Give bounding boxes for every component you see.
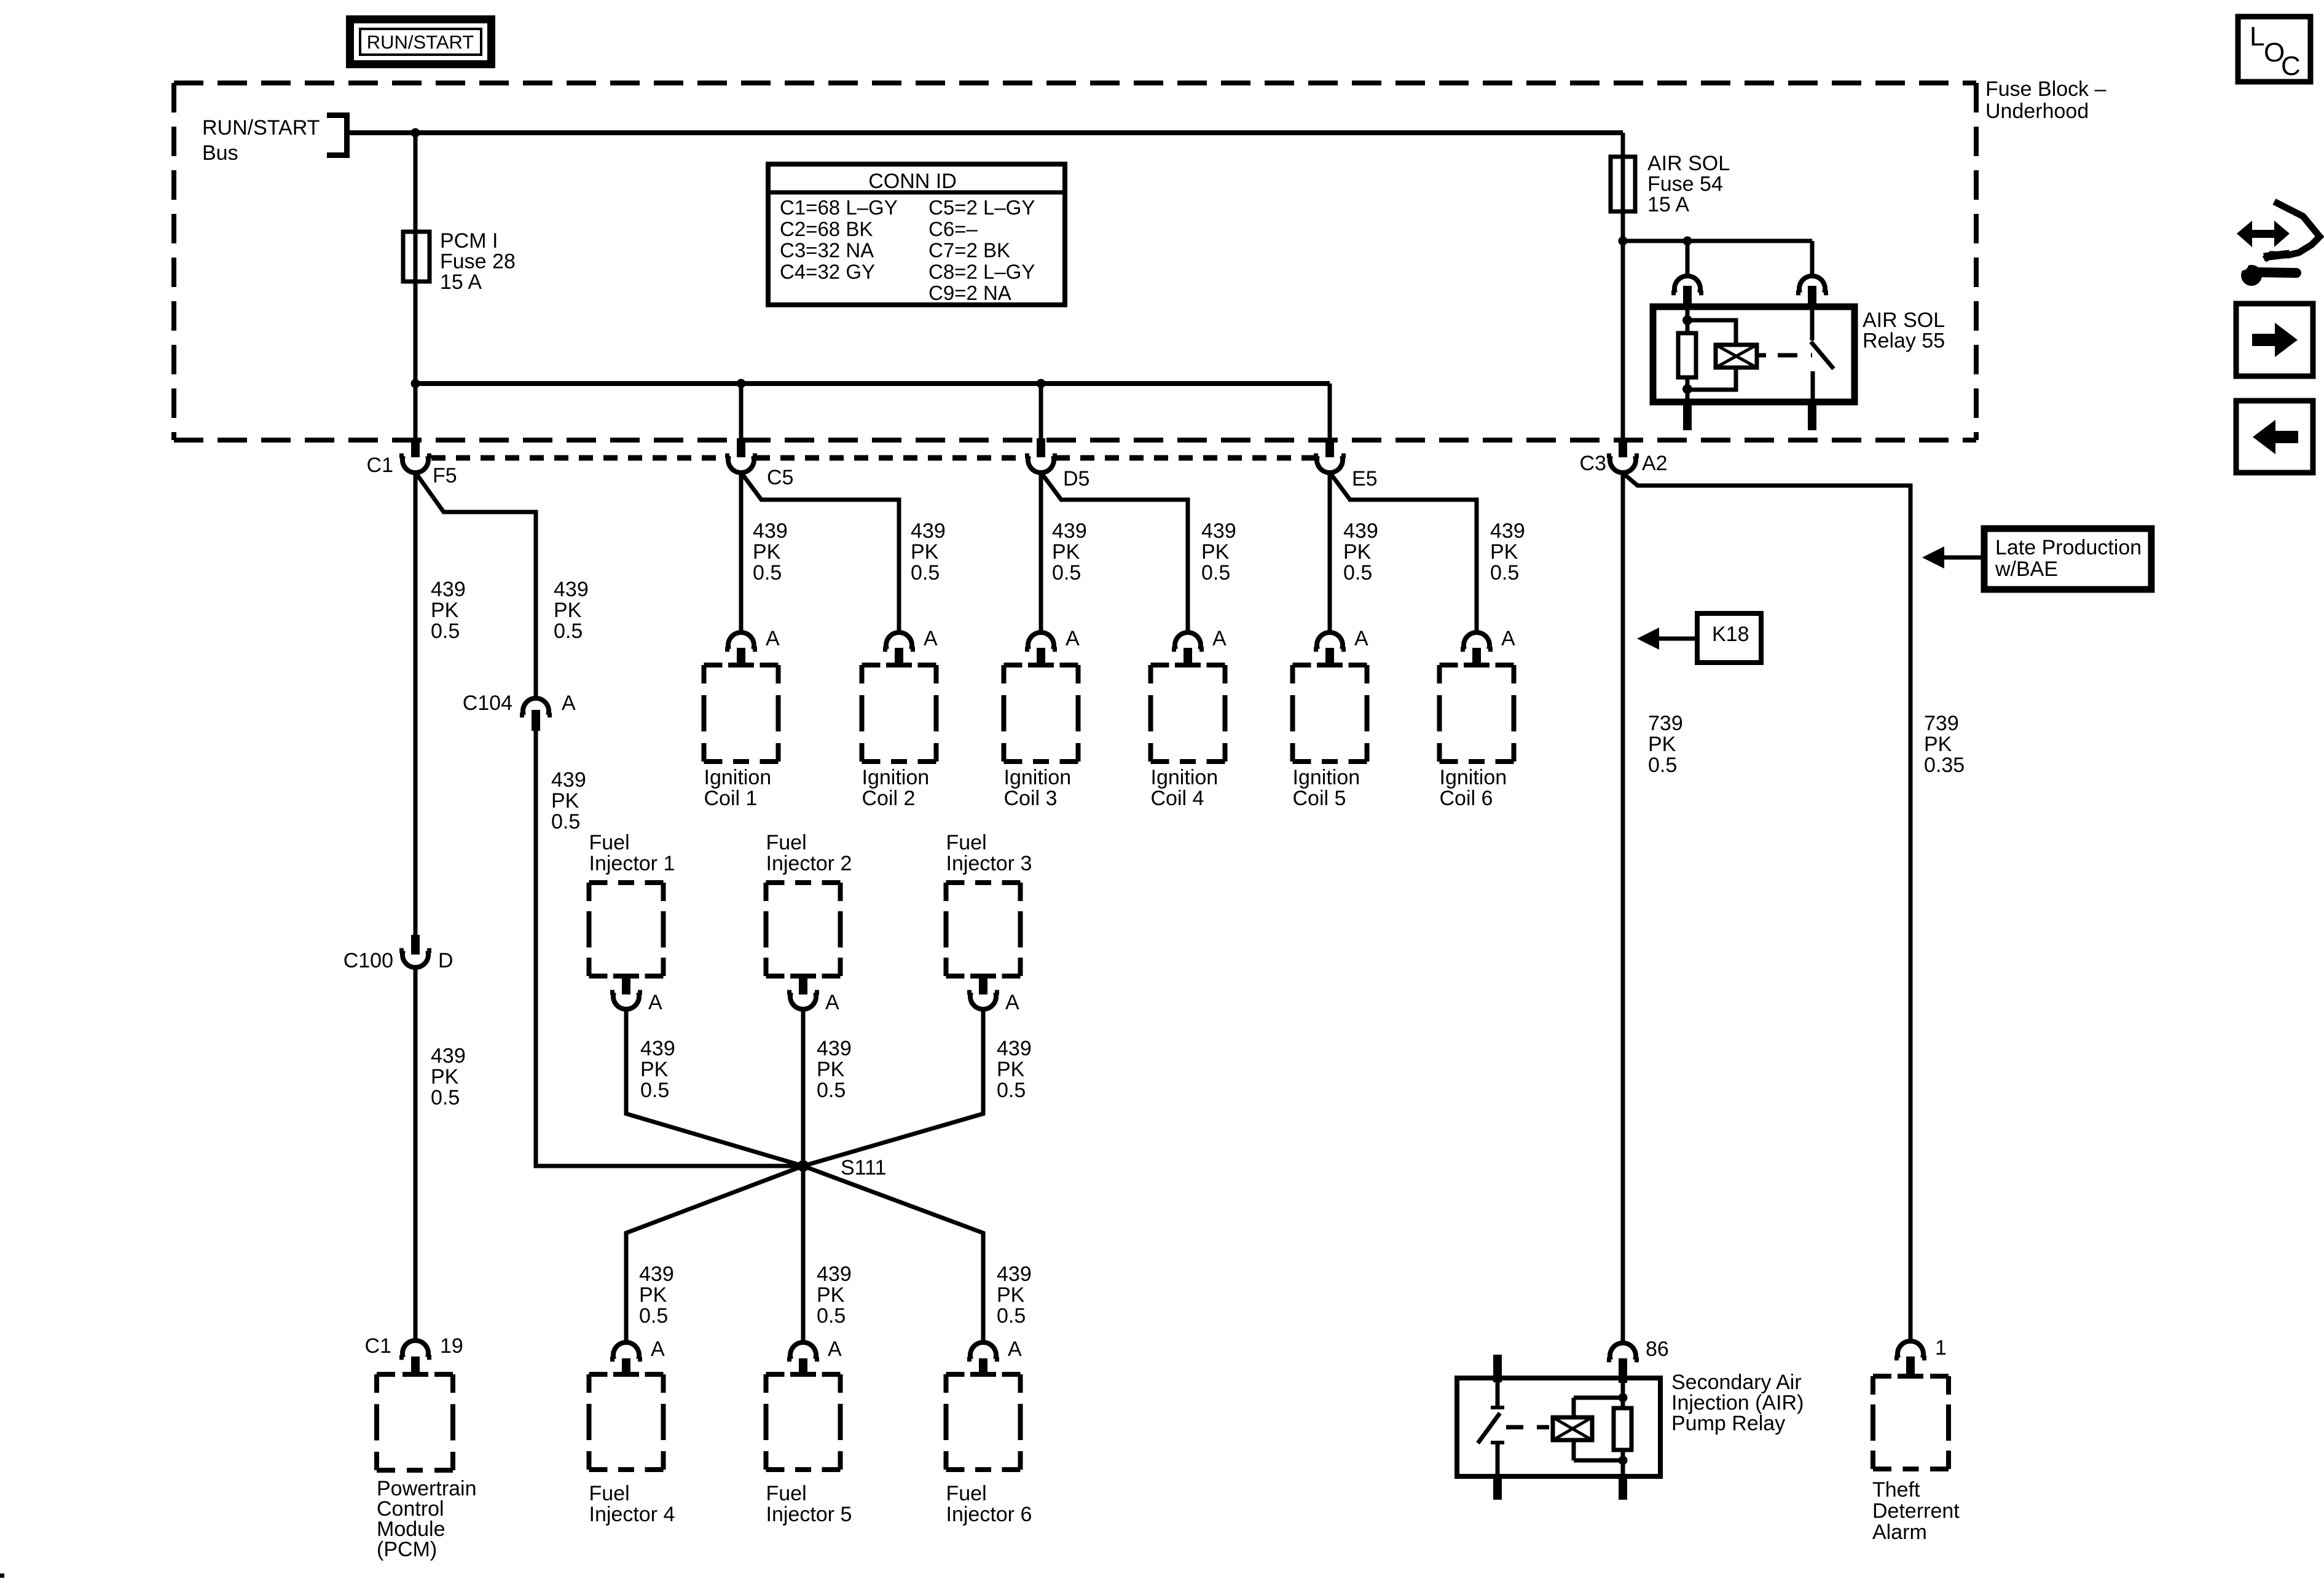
resistor relay55 coil suppression xyxy=(1678,333,1696,377)
wire drop to relay55 coil cup xyxy=(1686,241,1690,275)
svg-text:Ignition: Ignition xyxy=(1004,766,1072,789)
svg-text:0.5: 0.5 xyxy=(817,1304,846,1328)
svg-text:A: A xyxy=(648,991,662,1014)
svg-text:D5: D5 xyxy=(1063,467,1089,490)
svg-text:D: D xyxy=(438,949,453,972)
svg-text:0.5: 0.5 xyxy=(640,1079,669,1102)
svg-text:439: 439 xyxy=(817,1262,852,1286)
connector fuel injector 4 pin A xyxy=(613,1342,639,1359)
svg-text:Fuel: Fuel xyxy=(589,831,630,854)
svg-text:Injector 5: Injector 5 xyxy=(766,1503,852,1526)
svg-text:0.5: 0.5 xyxy=(911,561,940,585)
svg-text:0.5: 0.5 xyxy=(1052,561,1081,585)
svg-text:739: 739 xyxy=(1924,712,1959,735)
wire relay55 solenoid loop xyxy=(1687,320,1736,345)
svg-text:PK: PK xyxy=(640,1058,669,1081)
svg-text:439: 439 xyxy=(431,578,466,601)
CONN ID table xyxy=(768,164,1065,305)
svg-text:0.5: 0.5 xyxy=(1201,561,1230,585)
svg-text:439: 439 xyxy=(1490,519,1525,543)
connector ignition coil 6 pin A xyxy=(1464,632,1490,649)
svg-text:C8=2 L–GY: C8=2 L–GY xyxy=(928,260,1035,283)
svg-text:Fuel: Fuel xyxy=(589,1482,630,1505)
connector E5 xyxy=(1325,438,1334,457)
connector fuel injector 1 pin A xyxy=(613,974,639,979)
svg-text:Theft: Theft xyxy=(1872,1478,1920,1502)
svg-text:L: L xyxy=(2250,22,2264,52)
svg-text:15 A: 15 A xyxy=(440,270,482,294)
pump relay switch top pin xyxy=(1493,1355,1502,1382)
wire F5 branch to C104 xyxy=(416,473,536,696)
svg-text:Coil 6: Coil 6 xyxy=(1440,787,1493,810)
svg-text:C1: C1 xyxy=(367,454,393,477)
svg-text:PK: PK xyxy=(1924,733,1952,756)
svg-text:A: A xyxy=(924,627,938,650)
wire pump relay internal vertical xyxy=(1621,1383,1625,1408)
wire S111 to injector 5 xyxy=(801,1166,806,1341)
svg-text:Pump Relay: Pump Relay xyxy=(1671,1412,1785,1435)
solenoid pump relay coil xyxy=(1553,1417,1592,1440)
svg-text:439: 439 xyxy=(997,1037,1032,1060)
svg-text:C9=2 NA: C9=2 NA xyxy=(928,282,1011,304)
svg-text:439: 439 xyxy=(1201,519,1236,543)
svg-text:C2=68 BK: C2=68 BK xyxy=(780,218,873,240)
ignition coil 6 xyxy=(1440,663,1458,667)
svg-text:A: A xyxy=(1066,627,1080,650)
svg-text:A: A xyxy=(766,627,780,650)
resistor pump relay coil suppression xyxy=(1614,1408,1631,1450)
connector fuel injector 2 pin A xyxy=(790,974,816,979)
svg-text:Fuse Block –: Fuse Block – xyxy=(1985,77,2106,101)
svg-text:Ignition: Ignition xyxy=(1440,766,1507,789)
svg-text:C100: C100 xyxy=(343,949,393,972)
connector C100 pin D xyxy=(411,935,420,955)
fuel injector 4 xyxy=(589,1372,608,1377)
svg-text:Ignition: Ignition xyxy=(862,766,930,789)
svg-text:439: 439 xyxy=(639,1262,674,1286)
svg-text:Late Production: Late Production xyxy=(1995,536,2141,559)
wire relay55 feed horizontal xyxy=(1623,239,1812,243)
svg-text:439: 439 xyxy=(997,1262,1032,1286)
svg-text:A: A xyxy=(1005,991,1019,1014)
pump relay coil loop xyxy=(1572,1398,1576,1417)
svg-text:0.5: 0.5 xyxy=(817,1079,846,1102)
svg-text:A2: A2 xyxy=(1642,452,1668,475)
svg-text:C6=–: C6=– xyxy=(928,218,978,240)
svg-text:739: 739 xyxy=(1648,712,1683,735)
junction distribution at C5 drop xyxy=(737,379,746,388)
svg-text:C7=2 BK: C7=2 BK xyxy=(928,239,1010,262)
svg-text:w/BAE: w/BAE xyxy=(1995,557,2058,581)
relay55 coil bottom pin xyxy=(1683,404,1692,430)
fuel injector 3 xyxy=(946,880,1021,885)
svg-text:439: 439 xyxy=(551,768,586,792)
wire AIR SOL fuse junction to C3 xyxy=(1621,241,1625,440)
wire injector 2 to S111 xyxy=(801,1011,806,1166)
fuse block underhood dashed boundary xyxy=(174,81,1976,85)
connector ignition coil 5 pin A xyxy=(1317,632,1343,649)
junction distribution at D5 drop xyxy=(1037,379,1046,388)
svg-text:0.5: 0.5 xyxy=(997,1079,1026,1102)
svg-text:0.5: 0.5 xyxy=(639,1304,668,1328)
connector fuel injector 3 pin A xyxy=(970,974,996,979)
svg-text:A: A xyxy=(828,1337,842,1361)
svg-text:C3: C3 xyxy=(1580,452,1606,475)
svg-text:C1=68 L–GY: C1=68 L–GY xyxy=(780,196,898,219)
connector relay55 coil pin xyxy=(1674,276,1700,293)
wire D5 to ignition coil 4 xyxy=(1042,473,1188,631)
wire D5 to ignition coil 3 xyxy=(1039,473,1043,631)
RUN/START hot-at title box xyxy=(350,20,492,65)
svg-text:PK: PK xyxy=(997,1058,1025,1081)
solenoid relay55 coil xyxy=(1716,345,1757,368)
svg-text:15 A: 15 A xyxy=(1647,193,1689,216)
icon LOC box xyxy=(2238,17,2310,82)
connector C1 pin F5 xyxy=(411,438,420,457)
splice S111 xyxy=(798,1160,809,1172)
svg-text:C3=32 NA: C3=32 NA xyxy=(780,239,874,262)
svg-text:0.5: 0.5 xyxy=(551,810,580,833)
svg-text:C104: C104 xyxy=(463,691,512,715)
svg-text:439: 439 xyxy=(1343,519,1378,543)
wire injector 3 to S111 xyxy=(803,1011,983,1166)
page corner mark xyxy=(0,1573,4,1578)
junction relay55 coil bottom xyxy=(1682,384,1692,394)
svg-text:S111: S111 xyxy=(841,1156,886,1179)
svg-text:PK: PK xyxy=(1052,540,1080,564)
svg-text:Coil 4: Coil 4 xyxy=(1151,787,1204,810)
svg-text:A: A xyxy=(1501,627,1515,650)
svg-text:439: 439 xyxy=(640,1037,675,1060)
wire relay55 coil internal bottom xyxy=(1686,377,1690,402)
relay55 switch xyxy=(1810,307,1815,341)
svg-text:Coil 2: Coil 2 xyxy=(862,787,916,810)
svg-text:19: 19 xyxy=(440,1334,463,1358)
pump relay mechanical link dashed xyxy=(1506,1425,1549,1430)
pump relay bottom pin xyxy=(1619,1476,1627,1500)
flag Late Production w/BAE xyxy=(1984,529,2151,589)
junction relay55 coil feed xyxy=(1683,237,1692,246)
connector D5 xyxy=(1037,438,1045,457)
svg-text:A: A xyxy=(1212,627,1227,650)
svg-text:C4=32 GY: C4=32 GY xyxy=(780,260,875,283)
connector C1 pin 19 PCM xyxy=(402,1341,428,1357)
svg-text:PK: PK xyxy=(1490,540,1518,564)
svg-text:Secondary Air: Secondary Air xyxy=(1671,1371,1802,1394)
ignition coil 2 xyxy=(862,663,881,667)
fuel injector 6 xyxy=(946,1372,965,1377)
svg-text:0.5: 0.5 xyxy=(431,1086,460,1109)
svg-text:PK: PK xyxy=(911,540,939,564)
svg-text:PK: PK xyxy=(554,599,582,622)
svg-text:Injector 3: Injector 3 xyxy=(946,852,1032,875)
wire bus to AIR SOL fuse xyxy=(1621,133,1625,157)
RUN/START bus bracket xyxy=(327,112,350,118)
svg-text:Coil 5: Coil 5 xyxy=(1293,787,1346,810)
svg-text:86: 86 xyxy=(1646,1337,1669,1361)
svg-text:Fuel: Fuel xyxy=(766,1482,807,1505)
svg-text:PK: PK xyxy=(431,1065,459,1089)
svg-text:439: 439 xyxy=(554,578,589,601)
svg-text:A: A xyxy=(1354,627,1368,650)
svg-text:Fuel: Fuel xyxy=(946,831,987,854)
wire ignition distribution bus xyxy=(415,381,1330,386)
svg-text:A: A xyxy=(1008,1337,1022,1361)
wire C5 to ignition coil 2 xyxy=(742,473,899,631)
wire drop to E5 xyxy=(1328,384,1332,440)
wire PCM I fuse to distribution xyxy=(414,282,418,384)
connector C5 xyxy=(737,438,745,457)
theft deterrent alarm box xyxy=(1873,1374,1891,1379)
svg-text:Injector 1: Injector 1 xyxy=(589,852,675,875)
junction relay55 coil top xyxy=(1682,315,1692,325)
powertrain control module PCM box xyxy=(377,1372,395,1377)
wire injector 1 to S111 xyxy=(626,1011,803,1166)
wire drop to D5 xyxy=(1039,384,1043,440)
fuel injector 1 xyxy=(589,880,664,885)
fuse F54 AIR SOL xyxy=(1611,157,1635,211)
svg-text:Injection (AIR): Injection (AIR) xyxy=(1671,1392,1804,1415)
svg-text:439: 439 xyxy=(431,1044,466,1068)
flag K18 xyxy=(1697,613,1761,663)
secondary air injection pump relay box xyxy=(1457,1378,1660,1476)
wire C3 branch to theft alarm xyxy=(1622,472,1910,1340)
wire C1 F5 to C100 vertical xyxy=(414,473,418,935)
junction pump relay coil bottom xyxy=(1619,1456,1628,1465)
svg-text:PK: PK xyxy=(1201,540,1230,564)
svg-text:0.5: 0.5 xyxy=(431,620,460,643)
svg-text:0.5: 0.5 xyxy=(1490,561,1519,585)
connector ignition coil 2 pin A xyxy=(886,632,912,649)
svg-text:C5=2 L–GY: C5=2 L–GY xyxy=(928,196,1035,219)
wire drop to C5 xyxy=(739,384,744,440)
svg-text:PK: PK xyxy=(431,599,459,622)
svg-text:Deterrent: Deterrent xyxy=(1872,1500,1960,1523)
svg-text:0.35: 0.35 xyxy=(1924,754,1965,777)
svg-text:Ignition: Ignition xyxy=(1151,766,1219,789)
svg-text:F5: F5 xyxy=(433,464,457,487)
svg-text:Coil 1: Coil 1 xyxy=(704,787,758,810)
svg-text:Coil 3: Coil 3 xyxy=(1004,787,1058,810)
svg-text:C5: C5 xyxy=(767,466,793,489)
svg-text:Fuse 54: Fuse 54 xyxy=(1647,173,1723,196)
svg-text:AIR SOL: AIR SOL xyxy=(1647,152,1730,175)
svg-text:C1: C1 xyxy=(365,1334,391,1358)
connector C104 pin A xyxy=(523,698,549,715)
svg-text:PK: PK xyxy=(639,1283,667,1307)
relay55 switch bottom pin xyxy=(1808,404,1816,430)
svg-text:PK: PK xyxy=(997,1283,1025,1307)
ignition coil 5 xyxy=(1293,663,1311,667)
connector pin 86 xyxy=(1610,1343,1636,1360)
wire C104 to S111 xyxy=(536,731,803,1166)
wire PCM I fuse feed upper xyxy=(414,133,418,232)
connector fuel injector 5 pin A xyxy=(790,1342,816,1359)
wire C5 to ignition coil 1 xyxy=(739,473,744,631)
wire relay55 coil internal top xyxy=(1686,307,1690,333)
connector relay55 switch pin xyxy=(1799,276,1825,293)
svg-text:Bus: Bus xyxy=(202,141,238,165)
fuel injector 5 xyxy=(766,1372,785,1377)
svg-text:PK: PK xyxy=(551,789,579,813)
pump relay switch bottom pin xyxy=(1493,1476,1502,1500)
svg-text:Injector 6: Injector 6 xyxy=(946,1503,1032,1526)
svg-text:A: A xyxy=(651,1337,665,1361)
svg-text:AIR SOL: AIR SOL xyxy=(1863,309,1945,332)
svg-text:(PCM): (PCM) xyxy=(377,1538,437,1561)
svg-text:E5: E5 xyxy=(1352,467,1378,490)
connector fuel injector 6 pin A xyxy=(970,1342,996,1359)
svg-text:Injector 2: Injector 2 xyxy=(766,852,852,875)
fuse block connector face dotted line xyxy=(431,455,726,461)
svg-text:0.5: 0.5 xyxy=(753,561,782,585)
svg-text:PK: PK xyxy=(753,540,781,564)
junction distribution at C1 drop xyxy=(411,379,420,388)
fuel injector 2 xyxy=(766,880,841,885)
icon back arrow box xyxy=(2236,401,2313,473)
connector ignition coil 1 pin A xyxy=(728,632,754,649)
junction pump relay coil top xyxy=(1619,1393,1628,1403)
svg-text:Relay 55: Relay 55 xyxy=(1863,329,1945,353)
fuse F28 PCM I xyxy=(403,232,430,282)
svg-text:439: 439 xyxy=(753,519,788,543)
wire S111 to injector 6 xyxy=(803,1166,983,1341)
svg-text:CONN ID: CONN ID xyxy=(868,170,957,193)
svg-text:1: 1 xyxy=(1935,1336,1947,1360)
svg-text:RUN/START: RUN/START xyxy=(202,116,320,140)
svg-text:0.5: 0.5 xyxy=(554,620,583,643)
wire C100 to PCM xyxy=(414,969,418,1339)
svg-text:0.5: 0.5 xyxy=(997,1304,1026,1328)
icon forward arrow box xyxy=(2236,304,2313,376)
svg-text:Ignition: Ignition xyxy=(1293,766,1360,789)
wire RUN/START bus xyxy=(350,130,1623,135)
svg-text:439: 439 xyxy=(817,1037,852,1060)
icon schematic navigation wrench xyxy=(2248,230,2279,238)
svg-text:K18: K18 xyxy=(1712,623,1749,646)
wire E5 to ignition coil 5 xyxy=(1328,473,1332,631)
connector ignition coil 4 pin A xyxy=(1175,632,1201,649)
svg-text:PK: PK xyxy=(1648,733,1676,756)
connector theft alarm pin 1 xyxy=(1898,1341,1923,1358)
svg-text:PCM I: PCM I xyxy=(440,229,498,253)
svg-text:A: A xyxy=(825,991,839,1014)
svg-text:PK: PK xyxy=(1343,540,1372,564)
svg-text:RUN/START: RUN/START xyxy=(367,31,474,53)
svg-text:0.5: 0.5 xyxy=(1648,754,1677,777)
svg-text:A: A xyxy=(562,691,576,715)
relay55 mechanical link dashed xyxy=(1757,353,1812,358)
svg-text:Alarm: Alarm xyxy=(1872,1521,1927,1544)
svg-text:PK: PK xyxy=(817,1283,845,1307)
relay K55 AIR SOL box xyxy=(1653,307,1855,402)
connector ignition coil 3 pin A xyxy=(1028,632,1054,649)
ignition coil 4 xyxy=(1151,663,1169,667)
svg-text:Fuel: Fuel xyxy=(946,1482,987,1505)
svg-text:439: 439 xyxy=(1052,519,1087,543)
svg-text:Underhood: Underhood xyxy=(1985,100,2089,123)
svg-text:Fuse 28: Fuse 28 xyxy=(440,250,516,274)
ignition coil 3 xyxy=(1004,663,1023,667)
svg-text:PK: PK xyxy=(817,1058,845,1081)
svg-text:Fuel: Fuel xyxy=(766,831,807,854)
wire drop to relay55 switch cup xyxy=(1810,241,1815,275)
svg-text:439: 439 xyxy=(911,519,946,543)
wire C3 to AIR pump relay vertical xyxy=(1621,474,1625,1341)
junction bus to PCM I fuse feed xyxy=(411,128,420,138)
svg-text:Injector 4: Injector 4 xyxy=(589,1503,675,1526)
wire AIR SOL fuse to junction xyxy=(1621,211,1625,241)
svg-text:0.5: 0.5 xyxy=(1343,561,1372,585)
wire E5 to ignition coil 6 xyxy=(1330,473,1477,631)
pump relay switch xyxy=(1496,1382,1500,1406)
ignition coil 1 xyxy=(704,663,723,667)
connector C3 pin A2 xyxy=(1619,438,1627,457)
wire S111 to injector 4 xyxy=(626,1166,803,1341)
wire drop to C1 F5 xyxy=(414,384,418,440)
svg-text:C: C xyxy=(2281,51,2301,81)
svg-text:Ignition: Ignition xyxy=(704,766,772,789)
junction AIR SOL fuse output xyxy=(1619,237,1628,246)
